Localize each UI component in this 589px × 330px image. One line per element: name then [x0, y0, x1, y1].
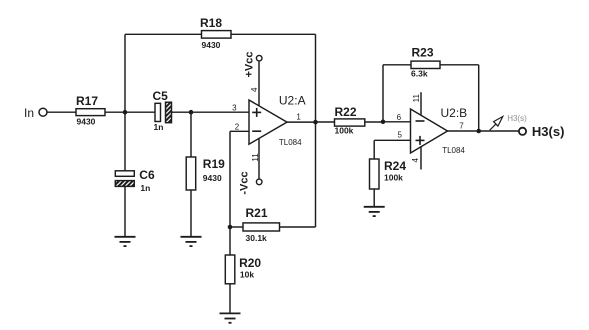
wire C6 to ground: [124, 186, 126, 236]
svg-text:R21: R21: [246, 206, 268, 220]
wire feedback right vertical: [478, 65, 480, 131]
svg-text:C5: C5: [153, 89, 169, 103]
H3(s) terminal: [519, 128, 526, 135]
svg-text:9430: 9430: [203, 173, 222, 183]
-Vcc terminal: [256, 179, 262, 185]
wire pin11 to -Vcc: [258, 139, 260, 179]
svg-text:7: 7: [459, 121, 464, 130]
wire pin5 down to R24: [373, 140, 375, 159]
wire R21 to output column: [280, 226, 316, 228]
node R21 R20 junction: [228, 225, 233, 230]
wire node to R20 to ground: [229, 229, 231, 255]
svg-text:1n: 1n: [140, 183, 150, 193]
node R19 junction: [189, 110, 194, 115]
svg-text:R20: R20: [239, 256, 261, 270]
wire to R22: [316, 121, 335, 123]
op-amp U2:A: [249, 100, 287, 144]
node pin6 junction: [381, 120, 386, 125]
op-amp U2:B: [411, 109, 448, 153]
resistor R21: [243, 223, 280, 231]
probe arrow: [490, 117, 503, 131]
svg-text:100k: 100k: [335, 126, 354, 136]
svg-text:100k: 100k: [384, 172, 403, 182]
resistor R18: [202, 31, 232, 38]
pin 4 stub U2:B: [420, 147, 422, 170]
node input junction: [123, 110, 128, 115]
svg-text:TL084: TL084: [442, 146, 465, 155]
wire pin2 down to R21 node: [229, 131, 231, 227]
wire node down to R19: [190, 112, 192, 157]
svg-text:11: 11: [412, 94, 421, 103]
wire C5 to pin3 node: [172, 111, 192, 113]
wire pin5: [374, 139, 410, 141]
wire pin6: [383, 121, 411, 123]
svg-text:R23: R23: [412, 46, 434, 60]
ground under R24: [364, 207, 385, 216]
svg-text:11: 11: [251, 153, 260, 162]
wire op-amp pin2: [230, 130, 249, 132]
wire output column vertical: [315, 34, 317, 227]
wire feedback left vertical: [382, 65, 384, 122]
+Vcc terminal: [256, 55, 262, 61]
svg-text:4: 4: [250, 87, 259, 92]
svg-text:30.1k: 30.1k: [246, 233, 268, 243]
ground under R19: [181, 237, 202, 246]
resistor R22: [335, 119, 365, 126]
resistor R23: [411, 61, 440, 68]
capacitor C6: [115, 171, 134, 187]
wire node to R21: [230, 226, 243, 228]
wire R24 to ground: [373, 189, 375, 207]
svg-text:U2:B: U2:B: [441, 106, 468, 120]
resistor R20: [225, 255, 235, 284]
wire R18 to output column: [231, 33, 316, 35]
In terminal: [39, 108, 47, 116]
svg-text:9430: 9430: [77, 116, 96, 126]
svg-text:4: 4: [411, 158, 420, 163]
svg-text:5: 5: [397, 131, 402, 140]
svg-text:3: 3: [232, 104, 237, 113]
svg-text:10k: 10k: [240, 270, 254, 280]
wire op-amp B output: [448, 130, 520, 132]
svg-text:9430: 9430: [202, 40, 221, 50]
resistor R17: [76, 109, 105, 116]
svg-text:1n: 1n: [154, 122, 164, 132]
svg-text:TL084: TL084: [279, 138, 302, 147]
wire R23 to right vertical: [440, 64, 479, 66]
resistor R19: [186, 157, 196, 190]
wire op-amp A output: [287, 121, 316, 123]
svg-text:C6: C6: [139, 168, 155, 182]
svg-text:In: In: [24, 106, 34, 120]
svg-text:6: 6: [397, 113, 402, 122]
svg-text:1: 1: [296, 112, 301, 121]
svg-text:-Vcc: -Vcc: [238, 171, 250, 194]
svg-text:R18: R18: [200, 16, 222, 30]
node output B junction: [476, 129, 481, 134]
wire R17 to C5: [105, 111, 155, 113]
svg-text:R17: R17: [76, 94, 98, 108]
wire R22 to pin6 node: [365, 121, 383, 123]
svg-text:R22: R22: [335, 105, 357, 119]
svg-text:U2:A: U2:A: [279, 94, 306, 108]
svg-text:H3(s): H3(s): [507, 114, 527, 123]
wire input node down to C6: [124, 112, 126, 171]
wire node to op-amp pin3: [191, 111, 249, 113]
wire vertical input node up to R18 row: [124, 34, 126, 112]
pin 11 stub U2:B: [420, 92, 422, 115]
ground under C6: [115, 237, 136, 246]
wire top row to R18: [125, 33, 202, 35]
svg-text:R24: R24: [384, 159, 406, 173]
svg-text:R19: R19: [203, 157, 225, 171]
node output A junction: [313, 120, 318, 125]
resistor R24: [370, 159, 380, 189]
wire to R23: [383, 64, 411, 66]
svg-text:H3(s): H3(s): [532, 124, 565, 139]
svg-text:6.3k: 6.3k: [411, 68, 428, 78]
svg-text:+Vcc: +Vcc: [244, 52, 256, 78]
capacitor C5: [155, 102, 172, 123]
wire In to R17: [47, 111, 76, 113]
wire +Vcc to pin4: [258, 62, 260, 106]
wire R19 to ground: [190, 190, 192, 237]
ground under R20: [220, 313, 241, 322]
svg-text:2: 2: [235, 122, 240, 131]
